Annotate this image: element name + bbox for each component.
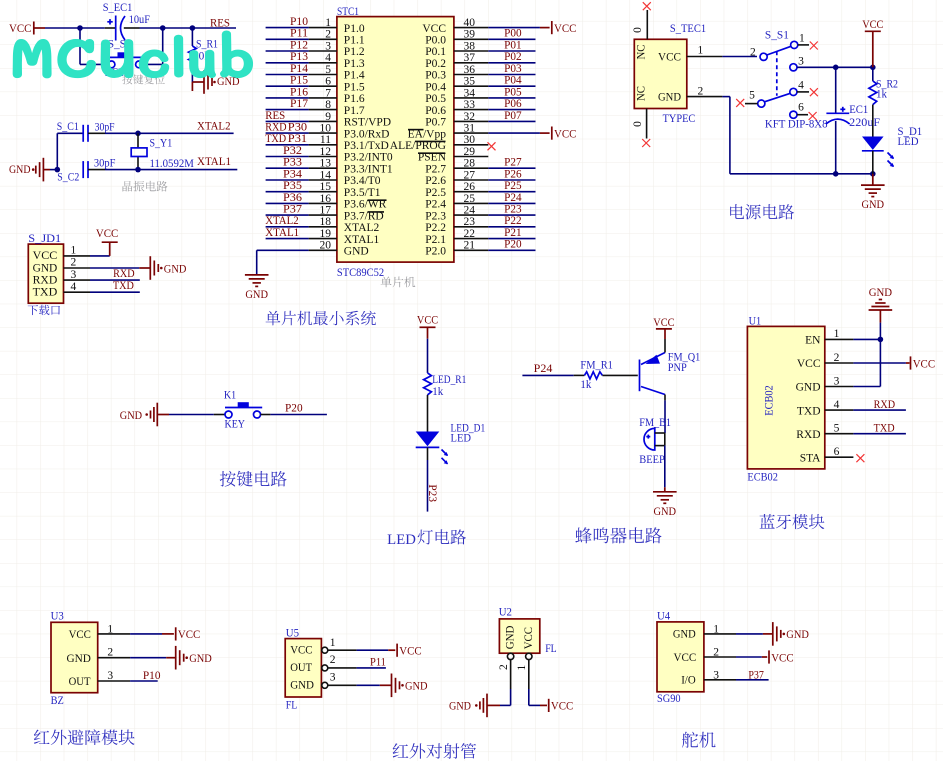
power flag VCC (U5) [397,644,422,658]
wire TXD net (S_JD1 pin4) [64,291,140,293]
power flag VCC (buzzer) [653,317,674,339]
svg-text:RXD: RXD [874,399,896,411]
svg-text:S_S1: S_S1 [765,29,789,41]
ground (bluetooth, inverted) [869,287,893,310]
ground (U2) [449,694,487,718]
wire U3 OUT to P10 [98,680,158,682]
svg-text:P1.0: P1.0 [344,23,365,35]
U1 pin numbers [834,328,840,458]
svg-text:5: 5 [834,423,840,435]
svg-text:LED: LED [387,532,416,548]
ground (download port) [150,256,186,280]
svg-text:P15: P15 [290,75,308,87]
svg-text:ECB02: ECB02 [747,471,778,483]
wire P24 to FM_R1 [522,374,584,376]
svg-text:RXD: RXD [113,268,135,280]
svg-text:P20: P20 [285,402,303,414]
svg-text:VCC: VCC [862,19,883,31]
svg-text:VCC: VCC [554,23,577,35]
S_S1 pin numbers [749,32,805,113]
wire U5 pin2 to P11 [328,667,386,669]
svg-text:P20: P20 [504,239,522,251]
svg-text:S_JD1: S_JD1 [28,233,61,245]
svg-text:XTAL1: XTAL1 [344,234,380,246]
STC1 left pin numbers [320,17,332,252]
resistor S_R1 [189,46,197,66]
resistor LED_R1 [424,373,432,395]
wire U1 EN/GND to ground [853,310,880,386]
svg-text:P02: P02 [504,51,522,63]
svg-text:3: 3 [834,375,840,387]
svg-text:GND: GND [67,653,91,665]
power flag VCC (download port) [96,228,119,242]
svg-text:NC: NC [636,86,648,101]
svg-text:P32: P32 [283,145,302,157]
svg-text:GND: GND [405,681,428,693]
svg-text:P24: P24 [504,192,522,204]
wire U1 TXD to RXD net [853,409,906,411]
svg-text:P1.3: P1.3 [344,58,365,70]
svg-text:RXD: RXD [265,122,286,134]
capacitor S_C1 30pF [83,125,88,142]
svg-text:KEY: KEY [225,418,246,430]
STC1 right pin names [390,23,447,258]
svg-text:1: 1 [834,328,840,340]
S_TEC1 top pin + no connect [643,2,651,39]
svg-text:2: 2 [834,352,840,364]
svg-text:2: 2 [698,86,704,98]
svg-text:P3.1/TxD: P3.1/TxD [344,140,389,152]
svg-text:TXD: TXD [797,405,821,417]
svg-text:0: 0 [632,121,644,127]
net labels P27-P20 [504,157,522,251]
svg-text:1: 1 [71,245,77,257]
crystal S_Y1 11.0592M [131,133,147,169]
caption 舵机 (servo) [682,732,716,748]
power flag GND (key) [120,403,169,427]
power flag VCC (bluetooth) [911,356,936,370]
svg-text:P35: P35 [283,180,302,192]
U5 pin circles [322,647,328,688]
svg-text:U3: U3 [51,611,64,623]
IC U3 body [51,622,98,692]
svg-text:VCC: VCC [523,627,535,650]
net label RXD P30 [265,122,307,134]
wire LED_R1 to LED_D1 [427,395,429,432]
svg-text:P24: P24 [534,363,553,375]
U4 pin numbers [713,624,719,682]
connector S_JD1 (download port) [28,244,63,303]
power flag VCC (reset rail) [9,22,34,35]
svg-text:FL: FL [545,643,557,655]
wire U3 GND [98,657,176,659]
capacitor EC1 220uF (electrolytic) [826,67,850,174]
power flag VCC (EA pin) [552,127,577,141]
svg-text:P3.4/T0: P3.4/T0 [344,175,381,187]
power flag VCC (U3) [176,627,201,641]
S_JD1 pin names [33,250,58,298]
IC U4 body [657,622,704,692]
wire collector to buzzer [664,395,666,434]
svg-text:TYPEC: TYPEC [663,113,696,125]
wire S_JD1 pin2 to GND [64,267,151,269]
svg-text:2: 2 [750,47,756,59]
svg-text:XTAL2: XTAL2 [344,222,380,234]
svg-text:P03: P03 [504,63,522,75]
svg-text:VCC: VCC [674,652,697,664]
svg-text:P16: P16 [290,86,308,98]
svg-text:BEEP: BEEP [639,454,665,466]
svg-text:NC: NC [636,44,648,59]
svg-text:P34: P34 [283,168,302,180]
svg-text:GND: GND [189,653,212,665]
svg-text:GND: GND [654,506,677,518]
svg-text:6: 6 [798,102,804,114]
svg-text:GND: GND [673,628,696,640]
svg-text:XTAL2: XTAL2 [265,215,299,227]
svg-text:1: 1 [516,665,528,671]
wire K1 to P20 [261,414,327,416]
svg-text:GND: GND [504,626,516,650]
svg-text:EN: EN [805,335,821,347]
wires STC1 right port2 nets [488,168,535,250]
U2 pin numbers (rotated) [498,664,528,671]
svg-text:3: 3 [798,56,804,68]
wire STC1 pin31 EA to VCC [488,132,549,134]
caption 按键复位 (key reset) [122,74,165,84]
caption 蜂鸣器电路 (buzzer circuit) [575,527,661,543]
svg-text:U1: U1 [749,315,762,327]
ground (U3) [176,646,212,670]
svg-text:P2.3: P2.3 [425,210,446,222]
caption 按键电路 (key circuit) [220,471,287,487]
svg-text:LED: LED [898,136,919,148]
wire U4 pin1 to GND [704,633,773,635]
svg-text:1k: 1k [876,89,887,101]
svg-text:VCC: VCC [797,358,821,370]
svg-text:P26: P26 [504,168,522,180]
svg-text:S_TEC1: S_TEC1 [670,23,706,35]
svg-text:S_C1: S_C1 [57,121,79,133]
svg-text:RES: RES [265,110,285,122]
svg-text:10uF: 10uF [129,14,150,26]
S_TEC1 pin numbers [632,27,704,127]
wire S_R1 top [191,28,193,46]
svg-text:GND: GND [164,263,187,275]
junction D (C1/C2 left leg) [55,167,61,173]
S_JD1 pin numbers [71,245,77,293]
STC1 right pin stubs [454,28,488,251]
STC1 right pin numbers [464,17,476,252]
svg-text:SG90: SG90 [657,693,681,705]
svg-text:P30: P30 [288,122,308,134]
svg-text:P1.5: P1.5 [344,81,365,93]
svg-text:1k: 1k [580,379,591,391]
svg-text:P14: P14 [290,63,308,75]
svg-text:P1.2: P1.2 [344,46,365,58]
svg-text:5: 5 [749,90,755,102]
svg-text:0: 0 [632,27,644,33]
svg-text:P0.5: P0.5 [425,93,446,105]
svg-text:S_EC1: S_EC1 [103,2,133,14]
svg-text:PNP: PNP [668,362,687,374]
ground (buzzer) [653,492,677,518]
svg-text:VCC: VCC [913,358,936,370]
junction I (EC1 bottom) [833,171,839,177]
ground (U4) [773,622,809,646]
power flag VCC (MCU pin40) [552,21,577,35]
svg-text:P0.7: P0.7 [425,117,446,129]
svg-text:P11: P11 [290,28,308,40]
svg-text:U5: U5 [286,627,299,639]
svg-text:VCC: VCC [653,317,674,329]
S_TEC1 bottom pin + no connect [642,109,650,148]
svg-text:U2: U2 [499,606,512,618]
svg-text:TXD: TXD [33,287,58,299]
svg-text:STA: STA [800,452,821,464]
svg-text:GND: GND [658,92,681,104]
junction F (crystal bottom) [135,167,141,173]
svg-text:VCC: VCC [9,23,32,35]
resistor S_R2 [869,67,877,136]
ground (U5) [392,674,428,698]
no connect X (S_S1 pin1) [798,42,818,50]
svg-text:S_C2: S_C2 [57,171,79,183]
svg-text:P13: P13 [290,51,308,63]
svg-text:P0.3: P0.3 [425,70,446,82]
svg-text:2: 2 [107,647,113,659]
STC1 left pin names [344,23,393,258]
svg-text:6: 6 [834,446,840,458]
STC1 right pin name overlines (EA PROG PSEN) [408,130,446,154]
svg-text:P37: P37 [283,204,302,216]
ground (reset pull-down) [204,70,240,94]
svg-text:VCC: VCC [178,629,201,641]
svg-text:VCC: VCC [290,644,313,656]
wires STC1 right port0 nets [488,39,535,121]
capacitor S_EC1 10uF (electrolytic) [107,16,125,41]
svg-text:RST/VPD: RST/VPD [344,117,391,129]
svg-text:P36: P36 [283,192,302,204]
svg-text:BZ: BZ [51,695,64,707]
wire U1 RXD to TXD net [853,433,906,435]
svg-text:GND: GND [869,287,892,299]
svg-text:3: 3 [330,671,336,683]
svg-text:P21: P21 [504,227,522,239]
LED LED_D1 [416,432,448,465]
svg-text:30pF: 30pF [95,121,115,133]
caption LED灯电路 (LED circuit) [387,529,466,548]
svg-text:ECB02: ECB02 [763,385,775,416]
wire GND to K1 [169,414,225,416]
svg-text:OUT: OUT [290,662,312,674]
wire FM_R1 to base [602,374,637,376]
caption 红外避障模块 (IR obstacle module) [34,729,135,745]
svg-text:S_R1: S_R1 [196,39,218,51]
junction H (VCC/R2 top) [870,65,876,71]
svg-text:P2.7: P2.7 [425,163,446,175]
junction G (EC1 top) [833,65,839,71]
svg-text:GND: GND [120,410,142,422]
wire S_S1 pin3 to VCC rail [797,66,873,68]
svg-text:P17: P17 [290,98,308,110]
wire U2 pin1 to VCC [529,660,547,706]
svg-text:KFT DIP-8X8: KFT DIP-8X8 [765,119,828,131]
net labels P32-P37 [283,145,302,216]
svg-text:VCC: VCC [69,629,92,641]
net labels XTAL2 XTAL1 (MCU) [265,215,299,239]
svg-text:P37: P37 [748,670,764,682]
IC STC1 STC89C52 (MCU) body [337,17,454,263]
wire U1 VCC [853,362,909,364]
svg-text:XTAL1: XTAL1 [265,227,299,239]
svg-text:P10: P10 [290,16,308,28]
ground (TYPEC rail) [861,174,885,211]
no connect X (S_S1 pin6) [797,112,817,120]
power flag VCC (LED) [417,315,438,339]
svg-text:P22: P22 [504,215,522,227]
caption 下载口 (download port) [28,305,60,315]
svg-text:P0.6: P0.6 [425,105,446,117]
wire buzzer to GND [664,433,666,492]
U2 pin names (rotated) [504,626,535,650]
svg-text:30pF: 30pF [94,158,116,170]
IC U2 body [499,619,539,653]
svg-text:P23: P23 [504,204,522,216]
svg-text:S_Y1: S_Y1 [150,138,173,150]
no connect X (U1 STA) [856,454,864,462]
svg-text:RXD: RXD [796,429,820,441]
svg-text:GND: GND [33,262,58,274]
caption 蓝牙模块 (bluetooth module) [760,514,825,529]
junction A (cap/switch left) [77,25,83,31]
svg-text:GND: GND [290,680,314,692]
svg-text:11.0592M: 11.0592M [150,158,194,170]
svg-text:4: 4 [798,79,804,91]
svg-text:TXD: TXD [265,133,286,145]
wires STC1 left nets [266,28,309,239]
junction J (LED bottom) [870,171,876,177]
wire U5 pin3 to GND [328,684,392,686]
STC1 pin name overlines (WR RD) [368,200,387,212]
svg-text:2: 2 [330,654,336,666]
S_TEC1 pin names [636,44,648,101]
wire STC1 pin40 to VCC [488,27,549,29]
svg-text:1k: 1k [432,386,443,398]
net labels P10-P17 [290,16,308,110]
wire GND to S_C2 / junction [50,169,57,171]
pushbutton K1 KEY [225,402,262,418]
svg-text:P1.7: P1.7 [344,105,365,117]
svg-text:3: 3 [71,269,77,281]
svg-text:P1.1: P1.1 [344,35,365,47]
svg-text:TXD: TXD [113,280,134,292]
no connect X (pin30 ALE) [488,142,496,150]
svg-text:P0.2: P0.2 [425,58,446,70]
caption 单片机最小系统 (MCU minimum system) [266,311,376,326]
svg-text:XTAL1: XTAL1 [197,156,231,168]
wire S_TEC1 pin1 to switch [687,56,757,58]
svg-text:TXD: TXD [874,423,895,435]
wire STC1 pin20 to GND [257,250,309,274]
svg-text:P33: P33 [283,157,302,169]
IC U1 ECB02 body [747,326,824,469]
wire U2 pin2 to GND [487,660,511,706]
net label TXD P31 [265,133,307,145]
svg-text:FM_R1: FM_R1 [580,360,613,372]
resistor FM_R1 [584,372,602,379]
junction E (crystal top) [135,131,141,137]
svg-text:GND: GND [862,199,885,211]
svg-text:I/O: I/O [681,675,696,687]
svg-text:LED_R1: LED_R1 [432,374,466,386]
svg-text:VCC: VCC [399,646,422,658]
wire S_R1 bottom to ground [192,66,204,91]
svg-text:P06: P06 [504,98,522,110]
svg-text:RES: RES [210,17,230,29]
svg-text:U4: U4 [657,610,670,622]
wire S_JD1 pin1 to VCC [64,242,110,256]
svg-text:1: 1 [799,32,805,44]
junction B (cap/switch right) [160,25,166,31]
caption 晶振电路 (crystal circuit) [123,181,168,192]
U2 pin circles [507,653,532,659]
power flag VCC (TYPEC rail) [862,19,883,68]
svg-text:EC1: EC1 [849,104,868,116]
switch S_S1 KFT DIP-8X8 [758,41,798,118]
svg-text:K1: K1 [224,390,237,402]
svg-text:P2.4: P2.4 [425,199,446,211]
svg-text:P25: P25 [504,180,522,192]
transistor FM_Q1 PNP [640,339,666,395]
capacitor S_C2 30pF [83,161,88,178]
wire U4 pin3 to P37 [704,679,769,681]
svg-text:OUT: OUT [69,676,91,688]
svg-text:220uF: 220uF [849,117,880,129]
svg-text:2: 2 [71,257,77,269]
svg-text:P2.5: P2.5 [425,187,446,199]
svg-text:P2.1: P2.1 [425,234,446,246]
power flag VCC (U4) [769,650,794,664]
svg-text:P31: P31 [288,133,308,145]
svg-text:P2.6: P2.6 [425,175,446,187]
wire U4 pin2 to VCC [704,656,767,658]
connector S_TEC1 TYPEC body [634,39,687,108]
wire TYPEC GND to bottom rail [687,97,873,174]
svg-text:GND: GND [344,246,369,258]
svg-text:VCC: VCC [96,228,119,240]
ground (MCU pin 20) [245,275,269,301]
pushbutton S_S2 KEY (reset) [105,52,147,68]
junction K (U1 EN) [878,337,884,343]
wire U3 VCC [98,633,174,635]
svg-text:4: 4 [71,281,77,293]
svg-text:VCC: VCC [417,315,438,327]
svg-text:P2.0: P2.0 [425,246,446,258]
svg-text:P2.2: P2.2 [425,222,446,234]
svg-text:STC1: STC1 [337,6,359,18]
svg-text:1: 1 [698,45,704,57]
svg-text:P11: P11 [370,657,386,669]
svg-text:2: 2 [498,664,510,670]
svg-text:P01: P01 [504,39,522,51]
wire VCC rail to RES [34,27,236,29]
svg-text:VCC: VCC [33,250,58,262]
svg-text:GND: GND [245,289,268,301]
U3 pin numbers [107,623,113,682]
svg-text:P00: P00 [504,28,522,40]
net labels P00-P07 [504,28,522,122]
